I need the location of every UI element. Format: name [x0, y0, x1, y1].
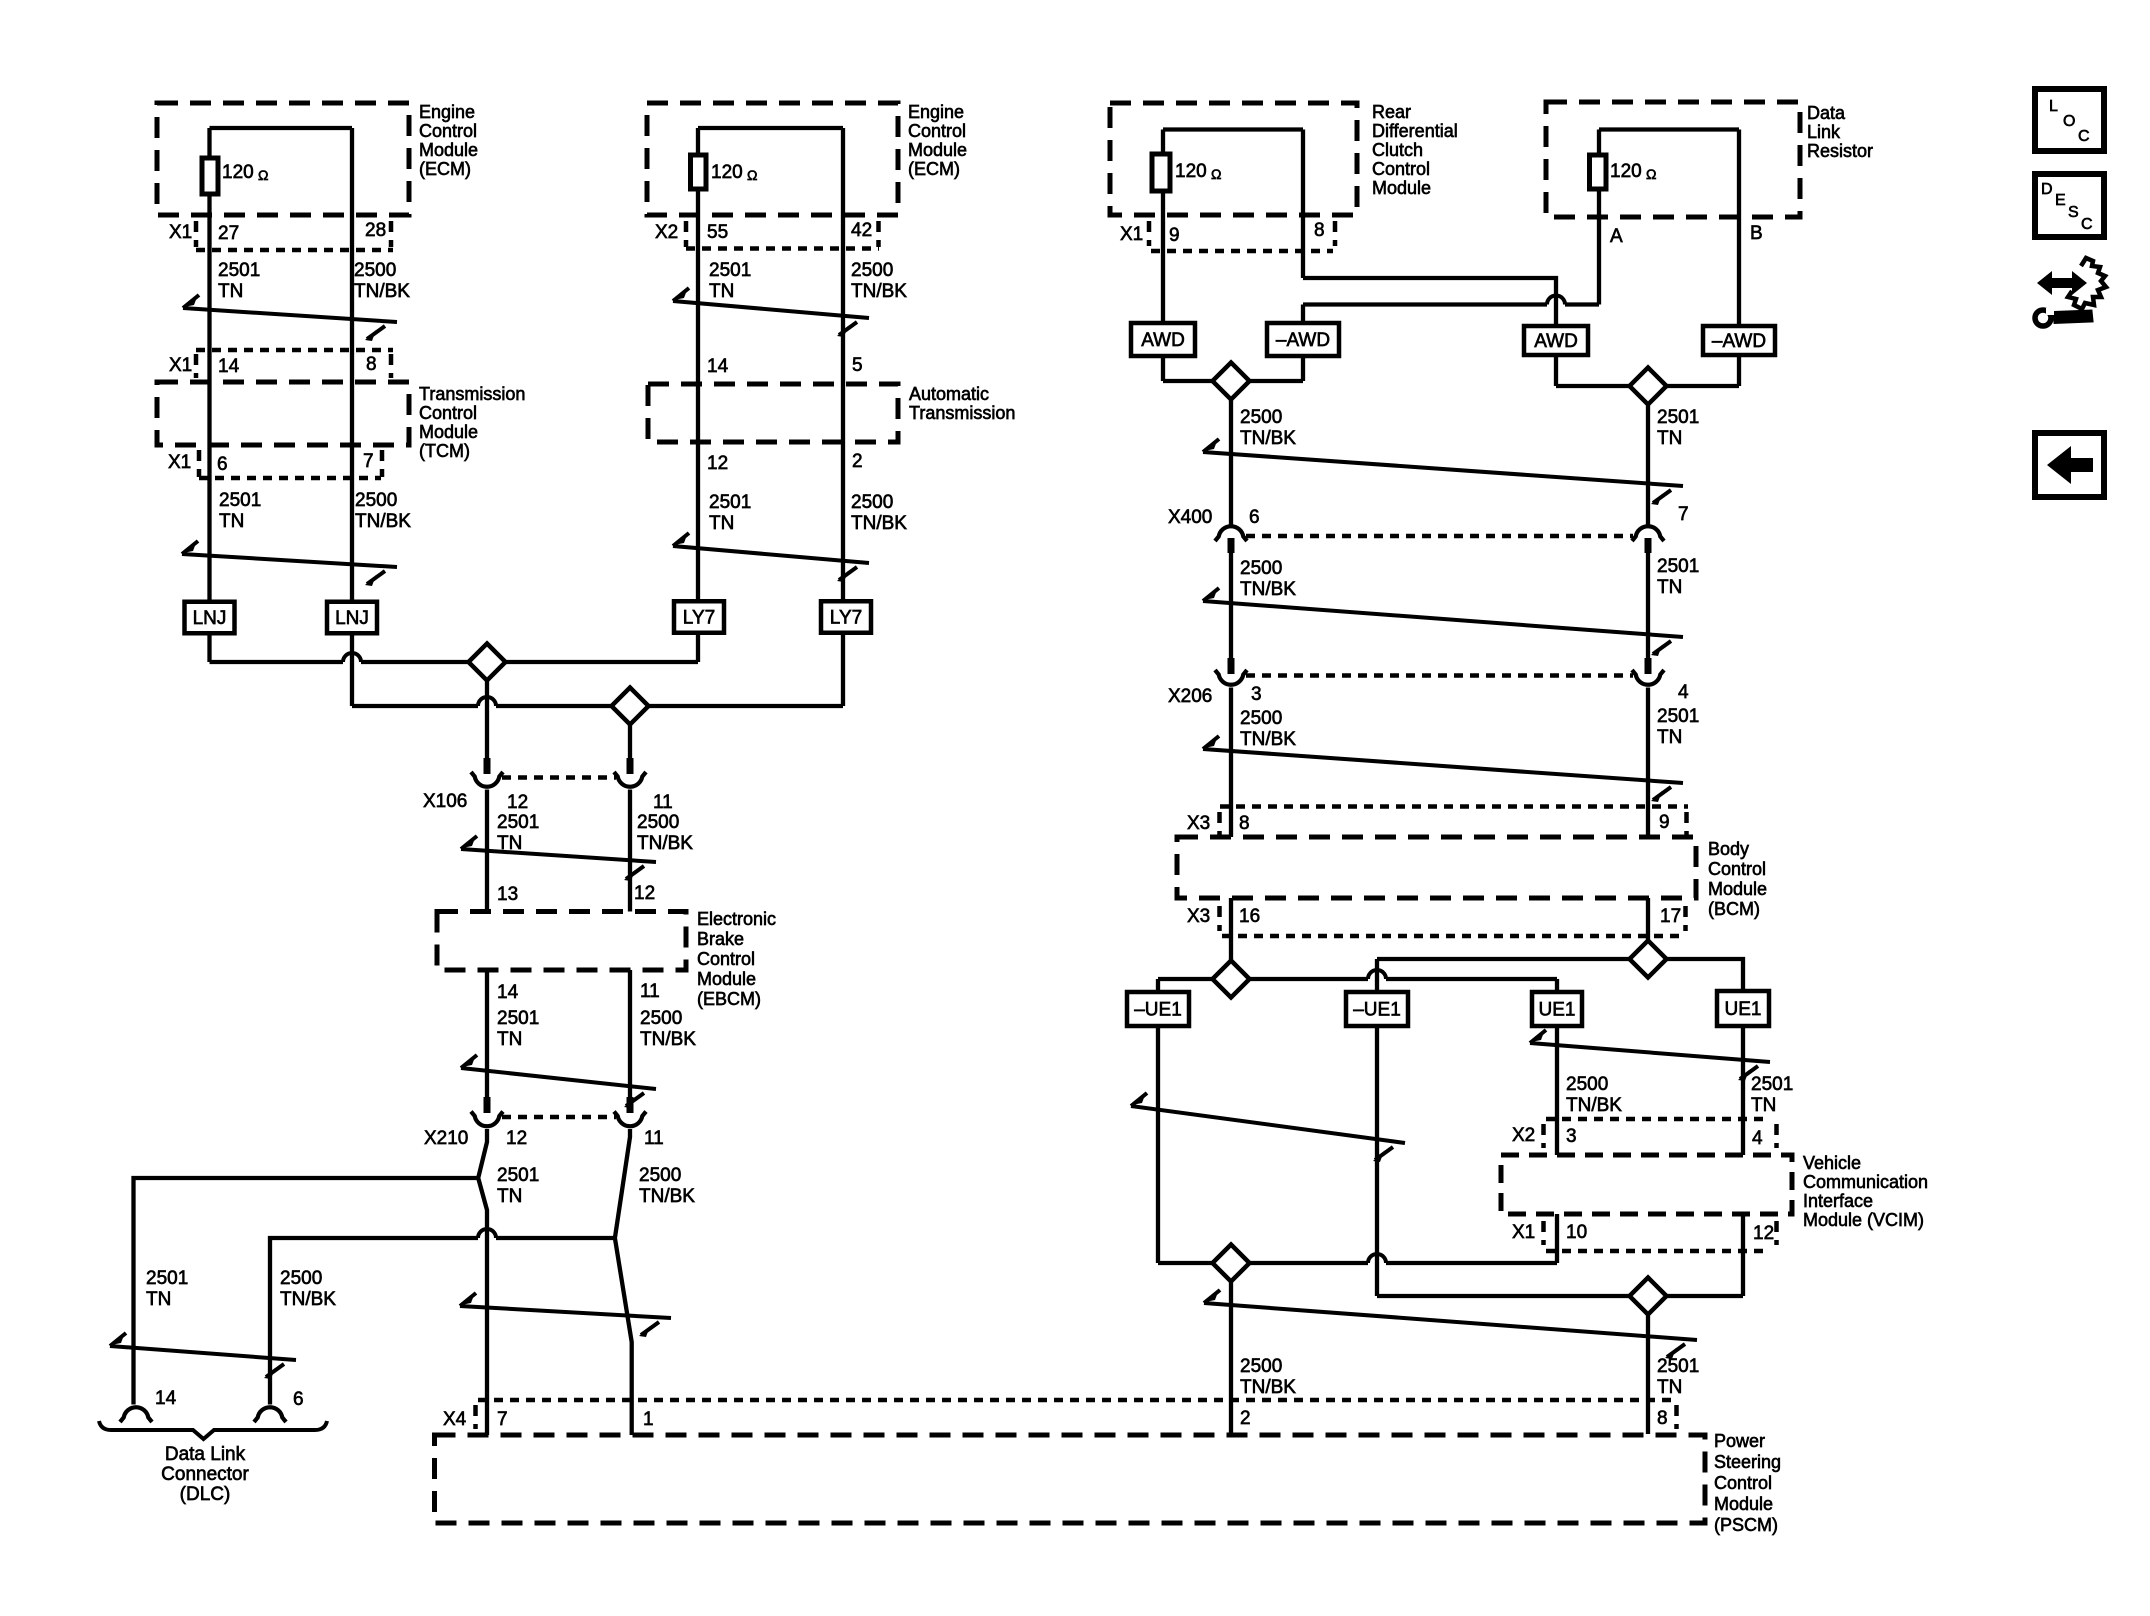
svg-text:2501: 2501	[497, 1008, 539, 1029]
svg-text:2500: 2500	[1240, 407, 1282, 428]
svg-text:Power: Power	[1714, 1431, 1765, 1451]
svg-text:2501: 2501	[497, 812, 539, 833]
svg-text:TN: TN	[497, 1029, 522, 1050]
svg-text:Control: Control	[1708, 859, 1766, 879]
svg-text:2500: 2500	[354, 260, 396, 281]
svg-text:LY7: LY7	[683, 608, 715, 629]
svg-text:TN/BK: TN/BK	[640, 1029, 696, 1050]
svg-text:Control: Control	[1714, 1473, 1772, 1493]
svg-text:Automatic: Automatic	[909, 384, 989, 404]
svg-text:2500: 2500	[1240, 558, 1282, 579]
svg-text:TN: TN	[1657, 727, 1682, 748]
svg-text:TN/BK: TN/BK	[1240, 428, 1296, 449]
svg-text:Transmission: Transmission	[419, 384, 525, 404]
svg-text:Control: Control	[1372, 159, 1430, 179]
svg-text:Body: Body	[1708, 839, 1749, 859]
svg-text:UE1: UE1	[1539, 1000, 1576, 1021]
svg-text:Electronic: Electronic	[697, 909, 776, 929]
svg-text:B: B	[1750, 223, 1763, 244]
svg-text:TN: TN	[146, 1289, 171, 1310]
svg-text:Module: Module	[697, 969, 756, 989]
svg-text:Control: Control	[908, 121, 966, 141]
svg-text:Data Link: Data Link	[165, 1444, 246, 1465]
svg-text:6: 6	[217, 454, 228, 475]
svg-text:TN/BK: TN/BK	[280, 1289, 336, 1310]
svg-text:TN/BK: TN/BK	[355, 511, 411, 532]
svg-text:X206: X206	[1168, 686, 1212, 707]
svg-text:16: 16	[1239, 906, 1260, 927]
svg-text:11: 11	[653, 792, 673, 813]
svg-text:2500: 2500	[637, 812, 679, 833]
svg-text:3: 3	[1251, 684, 1262, 705]
svg-text:55: 55	[707, 222, 728, 243]
svg-text:14: 14	[218, 356, 240, 377]
svg-text:Ω: Ω	[1646, 166, 1656, 182]
svg-text:13: 13	[497, 884, 518, 905]
svg-text:TN: TN	[709, 513, 734, 534]
svg-text:TN/BK: TN/BK	[1240, 579, 1296, 600]
svg-text:2: 2	[852, 451, 863, 472]
svg-text:TN: TN	[1657, 428, 1682, 449]
svg-text:Engine: Engine	[419, 102, 475, 122]
svg-text:2500: 2500	[851, 492, 893, 513]
svg-text:C: C	[2081, 216, 2093, 233]
svg-text:(PSCM): (PSCM)	[1714, 1515, 1778, 1535]
svg-text:X1: X1	[1512, 1222, 1535, 1243]
svg-text:12: 12	[507, 792, 528, 813]
svg-text:E: E	[2055, 192, 2066, 209]
svg-text:8: 8	[1657, 1408, 1668, 1429]
svg-text:1: 1	[643, 1409, 654, 1430]
svg-text:2500: 2500	[1240, 1356, 1282, 1377]
svg-text:10: 10	[1566, 1222, 1587, 1243]
svg-text:Module (VCIM): Module (VCIM)	[1803, 1210, 1924, 1230]
svg-text:TN: TN	[497, 1186, 522, 1207]
svg-text:X1: X1	[168, 452, 191, 473]
svg-text:X2: X2	[655, 222, 678, 243]
svg-text:Module: Module	[419, 140, 478, 160]
svg-text:TN: TN	[1657, 577, 1682, 598]
svg-text:6: 6	[1249, 507, 1260, 528]
svg-text:2501: 2501	[218, 260, 260, 281]
svg-text:TN/BK: TN/BK	[637, 833, 693, 854]
svg-text:TN/BK: TN/BK	[851, 513, 907, 534]
svg-text:2500: 2500	[640, 1008, 682, 1029]
svg-text:2501: 2501	[1657, 556, 1699, 577]
svg-text:4: 4	[1752, 1128, 1763, 1149]
svg-text:Steering: Steering	[1714, 1452, 1781, 1472]
svg-text:LY7: LY7	[830, 608, 862, 629]
svg-text:7: 7	[1678, 504, 1689, 525]
svg-text:6: 6	[293, 1389, 304, 1410]
svg-text:12: 12	[1753, 1223, 1774, 1244]
svg-text:2501: 2501	[709, 260, 751, 281]
svg-text:2500: 2500	[1566, 1074, 1608, 1095]
svg-text:Vehicle: Vehicle	[1803, 1153, 1861, 1173]
svg-text:28: 28	[365, 220, 386, 241]
svg-text:11: 11	[640, 981, 660, 1002]
svg-text:2501: 2501	[1657, 407, 1699, 428]
svg-text:14: 14	[155, 1388, 177, 1409]
svg-text:2500: 2500	[1240, 708, 1282, 729]
svg-text:TN: TN	[1751, 1095, 1776, 1116]
svg-text:Clutch: Clutch	[1372, 140, 1423, 160]
svg-text:17: 17	[1660, 906, 1681, 927]
svg-text:Ω: Ω	[258, 167, 268, 183]
svg-text:Module: Module	[1372, 178, 1431, 198]
svg-text:14: 14	[707, 356, 729, 377]
svg-text:Data: Data	[1807, 103, 1846, 123]
svg-text:Module: Module	[1708, 879, 1767, 899]
svg-text:TN/BK: TN/BK	[1240, 729, 1296, 750]
svg-text:2500: 2500	[280, 1268, 322, 1289]
svg-text:X210: X210	[424, 1128, 468, 1149]
svg-text:Resistor: Resistor	[1807, 141, 1873, 161]
svg-text:O: O	[2063, 113, 2075, 130]
svg-text:8: 8	[1314, 220, 1325, 241]
svg-text:12: 12	[634, 883, 655, 904]
svg-text:X106: X106	[423, 791, 467, 812]
svg-text:Control: Control	[419, 403, 477, 423]
svg-text:3: 3	[1566, 1126, 1577, 1147]
svg-text:–UE1: –UE1	[1353, 1000, 1401, 1021]
svg-text:X1: X1	[169, 222, 192, 243]
svg-text:X3: X3	[1187, 813, 1210, 834]
svg-text:5: 5	[852, 355, 863, 376]
svg-text:AWD: AWD	[1141, 330, 1185, 351]
svg-text:(BCM): (BCM)	[1708, 899, 1760, 919]
svg-text:–AWD: –AWD	[1276, 330, 1330, 351]
svg-text:Differential: Differential	[1372, 121, 1458, 141]
svg-text:Rear: Rear	[1372, 102, 1411, 122]
svg-text:11: 11	[644, 1128, 664, 1149]
svg-text:Connector: Connector	[161, 1464, 249, 1485]
svg-text:A: A	[1610, 226, 1623, 247]
svg-text:12: 12	[506, 1128, 527, 1149]
svg-text:Engine: Engine	[908, 102, 964, 122]
svg-text:TN: TN	[709, 281, 734, 302]
svg-text:TN: TN	[497, 833, 522, 854]
svg-text:D: D	[2041, 181, 2053, 198]
svg-text:TN: TN	[218, 281, 243, 302]
svg-text:(ECM): (ECM)	[419, 159, 471, 179]
svg-text:TN/BK: TN/BK	[639, 1186, 695, 1207]
svg-text:Link: Link	[1807, 122, 1841, 142]
svg-text:2501: 2501	[497, 1165, 539, 1186]
svg-text:12: 12	[707, 453, 728, 474]
svg-text:X400: X400	[1168, 507, 1212, 528]
svg-text:(TCM): (TCM)	[419, 441, 470, 461]
svg-text:L: L	[2049, 98, 2058, 115]
svg-text:9: 9	[1659, 812, 1670, 833]
svg-text:–AWD: –AWD	[1712, 331, 1766, 352]
svg-text:C: C	[2078, 128, 2090, 145]
svg-text:4: 4	[1678, 682, 1689, 703]
svg-text:7: 7	[497, 1409, 508, 1430]
svg-text:2501: 2501	[219, 490, 261, 511]
svg-text:UE1: UE1	[1725, 999, 1762, 1020]
svg-text:2501: 2501	[1657, 1356, 1699, 1377]
svg-text:X1: X1	[169, 355, 192, 376]
svg-text:7: 7	[363, 451, 374, 472]
svg-text:120: 120	[222, 162, 254, 183]
svg-text:AWD: AWD	[1534, 331, 1578, 352]
svg-text:X2: X2	[1512, 1125, 1535, 1146]
svg-text:120: 120	[1610, 161, 1642, 182]
svg-text:Module: Module	[419, 422, 478, 442]
svg-text:–UE1: –UE1	[1134, 1000, 1182, 1021]
svg-text:(DLC): (DLC)	[180, 1484, 231, 1505]
svg-text:(EBCM): (EBCM)	[697, 989, 761, 1009]
svg-text:X1: X1	[1120, 224, 1143, 245]
svg-text:27: 27	[218, 223, 239, 244]
svg-text:TN/BK: TN/BK	[851, 281, 907, 302]
svg-text:14: 14	[497, 982, 519, 1003]
svg-text:2501: 2501	[146, 1268, 188, 1289]
svg-text:Control: Control	[697, 949, 755, 969]
svg-text:2500: 2500	[355, 490, 397, 511]
svg-text:Ω: Ω	[747, 167, 757, 183]
svg-text:S: S	[2068, 204, 2079, 221]
svg-text:Brake: Brake	[697, 929, 744, 949]
svg-text:8: 8	[1239, 813, 1250, 834]
svg-text:LNJ: LNJ	[193, 608, 227, 629]
svg-text:2500: 2500	[851, 260, 893, 281]
svg-text:Module: Module	[1714, 1494, 1773, 1514]
svg-text:TN: TN	[219, 511, 244, 532]
svg-text:TN/BK: TN/BK	[354, 281, 410, 302]
svg-text:LNJ: LNJ	[335, 608, 369, 629]
svg-text:Communication: Communication	[1803, 1172, 1928, 1192]
svg-text:TN/BK: TN/BK	[1566, 1095, 1622, 1116]
svg-text:Module: Module	[908, 140, 967, 160]
svg-text:2501: 2501	[709, 492, 751, 513]
svg-text:2501: 2501	[1657, 706, 1699, 727]
svg-text:X3: X3	[1187, 906, 1210, 927]
svg-text:Ω: Ω	[1211, 166, 1221, 182]
svg-text:Interface: Interface	[1803, 1191, 1873, 1211]
svg-text:42: 42	[851, 220, 872, 241]
svg-text:120: 120	[1175, 161, 1207, 182]
svg-text:2500: 2500	[639, 1165, 681, 1186]
svg-text:2501: 2501	[1751, 1074, 1793, 1095]
svg-text:120: 120	[711, 162, 743, 183]
svg-text:X4: X4	[443, 1409, 467, 1430]
svg-text:Transmission: Transmission	[909, 403, 1015, 423]
svg-text:Control: Control	[419, 121, 477, 141]
svg-text:9: 9	[1169, 225, 1180, 246]
svg-text:8: 8	[366, 354, 377, 375]
svg-text:TN/BK: TN/BK	[1240, 1377, 1296, 1398]
svg-text:2: 2	[1240, 1408, 1251, 1429]
svg-text:(ECM): (ECM)	[908, 159, 960, 179]
svg-text:TN: TN	[1657, 1377, 1682, 1398]
